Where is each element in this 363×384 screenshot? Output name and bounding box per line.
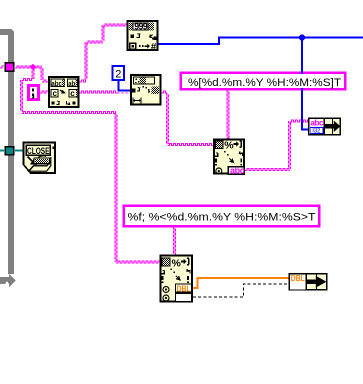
svg-text:%f; %<%d.%m.%Y %H:%M:%S>T: %f; %<%d.%m.%Y %H:%M:%S>T (128, 211, 316, 223)
svg-text:999: 999 (134, 21, 148, 31)
tunnel: string (magenta) (5, 62, 15, 72)
wire: Search/Replace output staircase up to Scan Value (80, 80, 87, 82)
svg-text:#: # (151, 42, 157, 53)
Scan From String function icon (160, 255, 194, 303)
wire: into Scan From String string input (116, 261, 160, 263)
svg-text:%: % (172, 257, 182, 269)
svg-text:CLOSE: CLOSE (27, 146, 50, 156)
Format Date/Time String function icon (213, 139, 245, 176)
Match Pattern function icon (130, 74, 162, 106)
wire: Search/Replace to Match Pattern (80, 91, 118, 93)
Close File function icon (24, 143, 56, 174)
svg-text:abc: abc (310, 117, 324, 127)
wire: string from left edge into tunnel (0, 66, 4, 68)
wire: scan format constant down into Scan From String (174, 227, 176, 255)
svg-text:I32: I32 (312, 128, 321, 135)
junction on blue wire (299, 34, 305, 40)
converter icon: abc + I32 inputs to output arrow (308, 117, 341, 135)
svg-text:DBL: DBL (291, 273, 305, 283)
svg-text:c: c (53, 89, 58, 98)
DBL indicator terminal (289, 273, 328, 291)
svg-text:abc: abc (230, 166, 245, 176)
svg-text:%[%d.%m.%Y %H:%M:%S]T: %[%d.%m.%Y %H:%M:%S]T (188, 77, 341, 89)
svg-text:c: c (70, 89, 75, 98)
string constant ";" (27, 84, 40, 101)
wire: DBL output to indicator (193, 278, 289, 288)
wire: refnum from left edge to tunnel (0, 150, 4, 152)
tunnel: file refnum (teal) (5, 146, 15, 156)
wire: long vertical down toward Scan From String (115, 113, 117, 262)
wire: blue branch down to converter I32 input (301, 38, 303, 130)
while loop border right edge (top corner) (0, 29, 14, 274)
wire: down into Search/Replace abc input (41, 67, 43, 80)
Search and Replace String function icon (48, 76, 80, 108)
string constant "%[%d.%m.%Y %H:%M:%S]T" (180, 70, 347, 93)
wire: Scan Value numeric output (159, 43, 221, 45)
svg-text:2: 2 (115, 69, 121, 81)
Scan Value function icon (127, 20, 159, 53)
wire: constant 2 into Match Pattern (118, 81, 120, 91)
wire: Match Pattern match output down to Format Date/Time (162, 91, 168, 93)
string constant "%f; %<%d.%m.%Y %H:%M:%S>T" (123, 205, 321, 228)
wire: tunnel to Close File (15, 150, 24, 152)
junction on string wire (30, 64, 37, 71)
while loop border bottom corner with arrow (0, 274, 16, 288)
wire: long horizontal under Search/Replace (22, 112, 117, 114)
svg-text:%: % (224, 139, 234, 151)
wire: time format constant down into Format Date/Time (227, 90, 229, 139)
wire: semicolon constant into Search/Replace (40, 91, 48, 93)
svg-text:ab: ab (68, 79, 75, 88)
wire: tunnel to junction and on (15, 66, 42, 68)
numeric constant 2 (112, 65, 126, 81)
wire: west along y=79.5 (22, 79, 34, 81)
wire: down left side (21, 80, 23, 112)
wire: remainder string (dashed) to indicator (193, 284, 289, 297)
svg-text:abc: abc (51, 79, 62, 88)
wire: junction branch down (32, 67, 34, 79)
svg-text:DBL: DBL (177, 283, 191, 293)
wire: Format Date/Time abc output up to converter (245, 169, 290, 171)
